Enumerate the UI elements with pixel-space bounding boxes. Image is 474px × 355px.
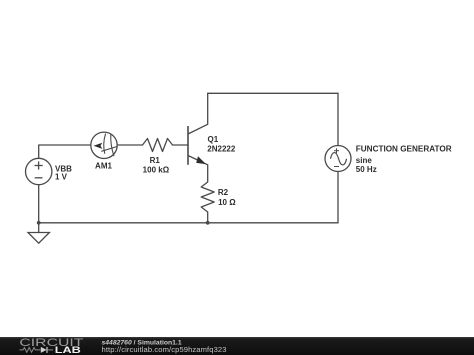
ammeter AM1 xyxy=(91,132,118,158)
transistor Q1 xyxy=(188,124,208,165)
svg-text:1 V: 1 V xyxy=(55,173,68,182)
wire top rail xyxy=(208,92,338,94)
label FUNCTION GENERATOR xyxy=(356,145,452,174)
svg-text:AM1: AM1 xyxy=(95,161,112,170)
logo diode xyxy=(41,347,47,353)
function generator V1 xyxy=(325,146,351,172)
svg-text:Q1: Q1 xyxy=(208,135,219,144)
resistor R1 xyxy=(143,139,173,152)
wire ground rail xyxy=(39,222,338,224)
svg-text:100 kΩ: 100 kΩ xyxy=(143,166,170,175)
transistor emitter arrow xyxy=(196,156,206,164)
resistor R2 xyxy=(201,182,214,212)
svg-text:LAB: LAB xyxy=(55,345,82,355)
wire ammeter to R1 xyxy=(117,144,142,146)
ground xyxy=(28,223,49,243)
svg-text:10 Ω: 10 Ω xyxy=(218,198,236,207)
ammeter arrow xyxy=(94,143,103,149)
label R2 value xyxy=(218,188,236,207)
node junction at R2/ground rail xyxy=(206,221,210,225)
label Q1 2N2222 xyxy=(207,135,236,153)
wire VBB top to ammeter xyxy=(39,145,91,158)
logo resistor zigzag xyxy=(19,348,40,353)
wire function generator bottom xyxy=(337,172,339,223)
node junction at VBB/ground xyxy=(37,221,41,225)
wire function generator top xyxy=(337,93,339,145)
wire R2 to ground rail xyxy=(207,212,209,223)
label R1 value xyxy=(143,156,170,174)
svg-text:2N2222: 2N2222 xyxy=(207,145,236,154)
svg-text:R2: R2 xyxy=(218,188,229,197)
wire R1 to Q1 base xyxy=(173,144,189,146)
label VBB value xyxy=(55,164,72,181)
wire collector vertical xyxy=(207,93,209,124)
voltage source VBB xyxy=(26,158,52,184)
svg-text:R1: R1 xyxy=(150,156,161,165)
wire VBB bottom xyxy=(38,185,40,223)
svg-text:sine: sine xyxy=(356,156,373,165)
svg-text:50 Hz: 50 Hz xyxy=(356,165,377,174)
svg-text:http://circuitlab.com/cp59hzam: http://circuitlab.com/cp59hzamfq323 xyxy=(102,345,227,354)
svg-text:FUNCTION GENERATOR: FUNCTION GENERATOR xyxy=(356,145,452,154)
wire emitter to R2 xyxy=(207,165,209,182)
